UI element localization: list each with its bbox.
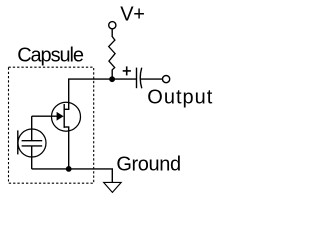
wire V+ to resistor [111, 29, 113, 37]
wire source vertical [68, 127, 70, 169]
resistor R1 [109, 37, 115, 70]
MK1 electret marker line [17, 130, 19, 154]
MK1 upper plate [22, 140, 43, 142]
wire drain vertical [68, 79, 70, 110]
svg-text:Ground: Ground [116, 154, 180, 176]
svg-text:Capsule: Capsule [17, 45, 84, 67]
ground symbol [104, 182, 122, 192]
wire C1 to output [141, 78, 163, 80]
Q1 source jog [64, 126, 69, 128]
capacitor C1 straight plate [136, 68, 138, 89]
transistor Q1 (JFET) circle [52, 102, 81, 131]
svg-text:Output: Output [147, 87, 213, 109]
node junction dot [109, 76, 115, 82]
electret element MK1 circle [18, 129, 46, 157]
terminal V+ [109, 22, 116, 29]
wire ground rail [32, 169, 113, 183]
Q1 drain jog [64, 108, 69, 110]
MK1 lower plate [22, 145, 43, 147]
svg-text:V+: V+ [120, 4, 144, 26]
terminal Output [163, 76, 170, 83]
wire gate [32, 115, 57, 117]
Q1 gate arrow [57, 112, 64, 121]
capsule dashed box [9, 67, 94, 183]
wire electret top to gate [31, 116, 33, 141]
junction dot source/rail [66, 166, 72, 172]
capacitor C1 curved plate [140, 68, 142, 89]
wire drain rail (horizontal) [68, 78, 136, 80]
capacitor C1 plus sign [123, 66, 131, 75]
wire electret bottom to rail [31, 146, 33, 169]
Q1 channel bar [63, 104, 65, 128]
wire resistor to node [111, 70, 113, 80]
